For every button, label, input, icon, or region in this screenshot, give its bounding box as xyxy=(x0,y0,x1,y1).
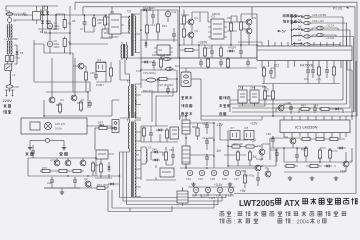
svg-text:ATX: ATX xyxy=(284,199,300,208)
capacitor C34 electrolytic xyxy=(198,170,205,181)
svg-text:P1 (X): P1 (X) xyxy=(333,6,342,10)
capacitor C35 electrolytic xyxy=(210,170,217,181)
svg-text:R47: R47 xyxy=(95,164,100,168)
svg-text:200V: 200V xyxy=(54,27,60,31)
svg-text:C12: C12 xyxy=(172,10,177,14)
junction node xyxy=(230,44,232,46)
svg-text:KA7500B: KA7500B xyxy=(300,64,313,68)
capacitor C61 xyxy=(311,67,315,75)
junction node xyxy=(301,16,303,18)
resistor R70 xyxy=(40,169,52,172)
transistor Q14 xyxy=(65,160,71,166)
resistor R62 xyxy=(262,66,265,78)
capacitor C65 xyxy=(256,175,260,183)
fuse F1 xyxy=(6,12,28,17)
svg-text:L1 4A/250V: L1 4A/250V xyxy=(5,37,19,41)
junction node xyxy=(176,78,178,80)
svg-text:+310V: +310V xyxy=(198,41,208,45)
junction node xyxy=(140,29,142,31)
svg-text:+5V: +5V xyxy=(240,189,247,193)
svg-text:C18 102/2KV: C18 102/2KV xyxy=(158,83,174,87)
resistor R25 xyxy=(203,46,206,58)
wire IC1 bottom pins xyxy=(284,133,346,139)
resistor R64 xyxy=(319,107,331,110)
svg-text:+12V: +12V xyxy=(250,122,258,126)
capacitor C55 xyxy=(171,152,175,160)
choke L4 winding xyxy=(182,142,190,168)
capacitor C11 electrolytic xyxy=(165,10,177,17)
capacitor C22 xyxy=(199,59,203,67)
transistor Q1 xyxy=(188,16,198,25)
shunt reg TL431 xyxy=(257,144,265,155)
common mode choke L1b xyxy=(7,37,12,54)
svg-text:D9 FR107: D9 FR107 xyxy=(143,6,155,10)
label integrated regulator output (CJK) xyxy=(283,14,297,23)
svg-text:T1: T1 xyxy=(127,119,131,123)
svg-text:TNY267: TNY267 xyxy=(109,35,119,39)
svg-text:IC8: IC8 xyxy=(244,126,249,130)
junction node xyxy=(149,9,151,11)
svg-text:IC7: IC7 xyxy=(230,126,235,130)
svg-text:FR154: FR154 xyxy=(228,46,236,50)
junction node xyxy=(275,149,277,151)
svg-text:C31 1000u: C31 1000u xyxy=(202,136,215,140)
title main xyxy=(239,198,358,208)
svg-text:C43: C43 xyxy=(238,86,243,90)
transistor Q10 xyxy=(290,138,296,144)
wire filter mesh xyxy=(180,116,256,168)
transistor Q17 xyxy=(78,63,84,69)
junction node xyxy=(296,147,298,149)
svg-text:D28 +5VSB: D28 +5VSB xyxy=(313,13,327,17)
resistor R53 xyxy=(304,146,307,158)
junction node xyxy=(185,137,187,139)
capacitor C26 xyxy=(166,86,170,94)
svg-text:Q2: Q2 xyxy=(195,29,199,33)
resistor R56 xyxy=(284,164,296,167)
svg-text:C64: C64 xyxy=(313,104,318,108)
svg-text:1A: 1A xyxy=(298,38,301,42)
capacitor C37 electrolytic xyxy=(234,170,241,181)
svg-text:C66: C66 xyxy=(286,101,291,105)
capacitor C48 xyxy=(50,177,54,185)
wire right edge drops xyxy=(234,61,356,194)
svg-text:2004: 2004 xyxy=(297,220,309,226)
junction node xyxy=(179,57,181,59)
capacitor C51 xyxy=(275,150,279,158)
svg-text:R22: R22 xyxy=(227,16,232,20)
junction node xyxy=(157,78,159,80)
capacitor CX3 box xyxy=(6,54,10,64)
resistor R31 xyxy=(157,77,169,80)
transistor Q6 xyxy=(265,171,271,177)
capacitor CX2 xyxy=(33,6,41,24)
capacitor CY link xyxy=(30,139,64,146)
transformer T4 drive xyxy=(121,42,127,60)
capacitor C32 xyxy=(205,154,209,162)
wire bridge frame xyxy=(34,6,70,44)
junction node xyxy=(198,44,200,46)
diode D20 xyxy=(227,50,235,53)
diode D41 xyxy=(324,165,332,168)
junction node xyxy=(227,145,229,147)
resistor R39 xyxy=(248,150,251,162)
resistor R61 xyxy=(332,65,335,77)
diode D23 xyxy=(156,129,164,132)
resistor R45 xyxy=(109,66,112,78)
diode D33 xyxy=(316,33,325,36)
resistor R37 xyxy=(244,145,256,148)
junction node xyxy=(227,165,229,167)
junction node xyxy=(67,175,69,177)
wire feedback mesh xyxy=(228,130,276,171)
diode D34 xyxy=(303,43,312,46)
diode D29 xyxy=(303,21,312,24)
svg-text:C20: C20 xyxy=(207,46,212,50)
capacitor C7 xyxy=(83,19,87,27)
svg-text::: : xyxy=(234,212,236,218)
resistor R29 xyxy=(159,57,162,69)
junction node xyxy=(105,14,107,16)
svg-text:5A: 5A xyxy=(298,18,301,22)
resistor R33 xyxy=(142,126,145,138)
capacitor C36 electrolytic xyxy=(222,170,229,181)
wire aux row2 xyxy=(28,171,120,188)
resistor R24 xyxy=(183,48,195,51)
transistor Q13 xyxy=(54,160,60,166)
transistor Q4 xyxy=(243,27,252,34)
resistor R51 xyxy=(314,137,326,140)
svg-text:C30: C30 xyxy=(202,122,207,126)
wire protection mesh xyxy=(270,116,352,172)
capacitor C52 xyxy=(295,152,299,160)
svg-text:C36: C36 xyxy=(222,177,227,181)
svg-text:IC4: IC4 xyxy=(158,48,163,52)
wire left long vertical xyxy=(179,7,181,120)
label 220V AC input xyxy=(3,98,13,114)
junction node xyxy=(140,69,142,71)
diode D30 xyxy=(303,28,312,31)
junction node xyxy=(291,29,293,31)
svg-text:DM311: DM311 xyxy=(212,12,221,16)
wire IC2 top pins xyxy=(238,37,347,47)
svg-text:Q3: Q3 xyxy=(253,16,257,20)
caption line 1 xyxy=(220,211,347,218)
svg-text:R46: R46 xyxy=(99,123,104,127)
svg-text:D18 SBL2040CT: D18 SBL2040CT xyxy=(152,53,172,57)
capacitor C10 xyxy=(151,12,155,20)
bridge rectifier D4 xyxy=(46,18,49,26)
svg-text:220V: 220V xyxy=(3,98,13,103)
transformer T2 xyxy=(120,60,141,118)
wire r65 xyxy=(245,170,258,188)
ground G2 xyxy=(228,182,232,186)
capacitor C33 electrolytic xyxy=(186,170,193,181)
wire mid bus xyxy=(180,58,258,68)
choke L5 row1 xyxy=(292,16,303,17)
wire aux row3 xyxy=(44,184,120,190)
wire q1q2 xyxy=(184,10,200,46)
op-amp IC2 KA7500B box xyxy=(257,46,352,61)
wire sec3 xyxy=(141,126,178,142)
svg-text:R40: R40 xyxy=(56,103,61,107)
junction node xyxy=(319,161,321,163)
svg-text:5T: 5T xyxy=(136,153,139,157)
ground G5 xyxy=(334,176,338,180)
wire second cap row xyxy=(183,187,236,206)
diode D32 xyxy=(316,26,325,29)
capacitor C66 xyxy=(289,104,293,112)
junction node xyxy=(93,14,95,16)
capacitor C40 xyxy=(88,100,92,108)
svg-text:LWT2005: LWT2005 xyxy=(239,199,275,208)
svg-text:D29 +12V: D29 +12V xyxy=(313,19,325,23)
wire opto mesh xyxy=(96,62,111,82)
junction node xyxy=(55,14,57,16)
junction node xyxy=(272,115,274,117)
capacitor C50 xyxy=(271,136,275,144)
wire top return B xyxy=(83,7,355,112)
choke L3 winding xyxy=(182,116,190,138)
svg-text:R12: R12 xyxy=(162,24,167,28)
capacitor C62 xyxy=(325,67,329,75)
choke L6 row2 xyxy=(293,22,302,23)
junction node xyxy=(301,29,303,31)
svg-text:+3.3V: +3.3V xyxy=(214,183,223,187)
resistor R44 xyxy=(95,186,107,189)
op-amp IC1 LM339N box xyxy=(280,120,350,133)
resistor R3 680K xyxy=(92,16,103,28)
svg-text:CY: CY xyxy=(13,19,17,23)
svg-text:4.7K: 4.7K xyxy=(332,149,338,153)
choke L8 row4 xyxy=(293,35,302,36)
svg-text:R41: R41 xyxy=(77,101,82,105)
wire fan box exit xyxy=(87,125,112,127)
junction node xyxy=(119,175,121,177)
resistor R65 xyxy=(243,173,246,185)
svg-text:R36 100: R36 100 xyxy=(233,142,243,146)
rectifier diode D18 xyxy=(160,54,172,61)
box varistor xyxy=(102,29,112,38)
svg-text:C57: C57 xyxy=(228,194,233,198)
choke L3R oval xyxy=(144,78,158,82)
diode D21 xyxy=(142,61,150,64)
label +5V arrow xyxy=(277,30,287,34)
junction node xyxy=(43,115,45,117)
svg-text:C7: C7 xyxy=(80,27,84,31)
svg-text:R63: R63 xyxy=(301,104,306,108)
wire IC2 bottom pins xyxy=(262,61,347,71)
svg-text:A733: A733 xyxy=(50,159,57,163)
fan control box xyxy=(21,118,87,134)
resistor R11 xyxy=(156,22,159,34)
capacitor C31 xyxy=(205,138,209,146)
wire standby frame xyxy=(112,7,178,58)
svg-text:0.1u: 0.1u xyxy=(15,56,21,60)
bridge rectifier D3 xyxy=(41,18,44,26)
junction node xyxy=(240,44,242,46)
label PFC transformer (CJK col1) xyxy=(181,96,192,115)
ground cold xyxy=(62,146,66,150)
svg-text:C58 470u: C58 470u xyxy=(243,174,255,178)
wire 310V rail xyxy=(180,14,258,58)
svg-text:C34: C34 xyxy=(198,177,203,181)
junction node xyxy=(69,32,71,34)
svg-text:C37: C37 xyxy=(234,177,239,181)
resistor R21 xyxy=(182,27,185,39)
svg-text:D46: D46 xyxy=(152,148,157,152)
wire 310V feed to right xyxy=(70,44,108,92)
wire left T1 mesh xyxy=(95,128,114,178)
svg-text:C14: C14 xyxy=(150,23,155,27)
capacitor C21 xyxy=(239,48,243,56)
wire rectified bus xyxy=(44,15,106,29)
capacitor C20 xyxy=(210,48,214,56)
diode D40 xyxy=(337,147,345,150)
wire AC to bridge xyxy=(13,14,90,92)
transformer T3 xyxy=(124,10,140,57)
rectifier diode D19 xyxy=(165,64,181,71)
bridge rectifier D1 xyxy=(41,9,44,17)
box snubber xyxy=(96,150,108,159)
resistor R46 xyxy=(97,126,109,129)
capacitor C25 xyxy=(152,60,156,68)
junction node xyxy=(179,44,181,46)
junction node xyxy=(87,91,89,93)
capacitor CX4 box xyxy=(10,54,20,64)
svg-text:PC817: PC817 xyxy=(96,83,104,87)
transistor Q5 xyxy=(255,165,261,171)
svg-text:431: 431 xyxy=(257,144,262,148)
capacitor box C44 xyxy=(250,90,259,103)
optocoupler IC8 xyxy=(244,126,254,140)
capacitor C38 electrolytic xyxy=(192,187,199,197)
label +12V tag xyxy=(201,194,215,200)
svg-text:C35: C35 xyxy=(210,177,215,181)
mag-amp saturable choke L9 xyxy=(146,147,147,164)
junction node xyxy=(291,22,293,24)
resistor R1 xyxy=(63,14,72,30)
svg-text:IC9: IC9 xyxy=(97,58,102,62)
svg-text:R5: R5 xyxy=(72,19,76,23)
wire row5 xyxy=(292,43,341,47)
resistor R27 xyxy=(206,57,209,69)
label cold ground (CJK) xyxy=(59,152,67,156)
capacitor CX1 xyxy=(8,16,17,25)
label DC voltage output interface (CJK col2) xyxy=(219,96,230,115)
svg-text:R44 150: R44 150 xyxy=(97,183,107,187)
svg-text:+12 2A: +12 2A xyxy=(326,24,335,28)
wire row left join xyxy=(292,15,303,45)
transistor Q11 xyxy=(343,159,352,167)
diode D42 xyxy=(108,183,116,186)
resistor R60 xyxy=(317,65,320,77)
resistor R59 xyxy=(263,89,266,101)
capacitor C24 xyxy=(246,59,250,67)
resistor R10 xyxy=(145,23,148,35)
resistor R41 xyxy=(79,100,82,112)
AC plug prongs xyxy=(5,90,15,96)
wire sec1 xyxy=(141,57,180,88)
ground G1 xyxy=(191,182,195,186)
svg-text:4.7K: 4.7K xyxy=(316,78,322,82)
resistor R55 xyxy=(328,148,331,160)
svg-text:2W: 2W xyxy=(98,21,102,25)
svg-text:8A: 8A xyxy=(298,25,301,29)
transistor Q7 xyxy=(49,97,55,103)
resistor R22 xyxy=(229,21,232,33)
caption line 2 xyxy=(219,218,326,225)
choke L11 winding xyxy=(177,191,188,203)
common mode choke L1a xyxy=(7,25,12,38)
choke L7 row3 xyxy=(293,29,302,30)
junction node xyxy=(213,155,215,157)
junction node xyxy=(43,14,45,16)
label hot ground (CJK) xyxy=(25,152,33,156)
wire magamp mesh xyxy=(141,147,176,180)
svg-text:C38: C38 xyxy=(192,194,197,198)
box 3.3V reg xyxy=(160,168,174,177)
IC3 PWM box xyxy=(106,10,124,34)
transistor Q2 xyxy=(188,29,198,38)
resistor R73 xyxy=(91,161,94,173)
svg-text:C25 2200u: C25 2200u xyxy=(143,71,156,75)
diode D10 xyxy=(141,9,149,12)
capacitor C47 xyxy=(31,148,35,156)
transistor Q9 xyxy=(84,177,91,187)
bridge rectifier D2 xyxy=(46,9,49,17)
svg-text:D19: D19 xyxy=(175,64,180,68)
capacitor C39 electrolytic xyxy=(204,187,211,197)
transistor Q16 xyxy=(278,105,284,111)
filter coil L2 xyxy=(10,72,16,85)
resistor R71 xyxy=(57,169,69,172)
wire primary mesh xyxy=(227,7,257,45)
svg-text:D5: D5 xyxy=(20,51,24,55)
regulator module box xyxy=(170,127,179,139)
junction node xyxy=(95,157,97,159)
wire B+ node xyxy=(44,6,70,55)
diode D43 xyxy=(98,125,106,128)
svg-text:R65: R65 xyxy=(241,169,246,173)
junction node xyxy=(213,139,215,141)
resistor R38 xyxy=(236,150,239,162)
resistor R50 xyxy=(300,137,312,140)
resistor R63 xyxy=(299,107,311,110)
ground G3 xyxy=(288,176,292,180)
junction node xyxy=(256,44,258,46)
wire top return A xyxy=(75,2,357,116)
svg-text:C45: C45 xyxy=(90,71,95,75)
svg-text:R66: R66 xyxy=(266,94,271,98)
optocoupler IC7 xyxy=(230,126,240,140)
svg-text:+12V: +12V xyxy=(209,196,215,200)
svg-text:Q4: Q4 xyxy=(243,27,247,31)
svg-text:NTC: NTC xyxy=(14,85,19,89)
wire lower primary xyxy=(180,45,258,58)
svg-text:TL431: TL431 xyxy=(256,157,264,161)
svg-text:C56: C56 xyxy=(216,194,221,198)
capacitor C63 xyxy=(269,68,273,76)
transformer T1 xyxy=(127,119,142,198)
capacitor C60 xyxy=(306,67,310,75)
capacitor C56 electrolytic xyxy=(216,187,223,197)
svg-text::: : xyxy=(234,220,236,226)
wire step nest xyxy=(152,70,177,126)
svg-text:FAN 12V: FAN 12V xyxy=(55,122,66,126)
resistor R35 xyxy=(196,126,199,138)
svg-text:C945: C945 xyxy=(340,169,347,173)
